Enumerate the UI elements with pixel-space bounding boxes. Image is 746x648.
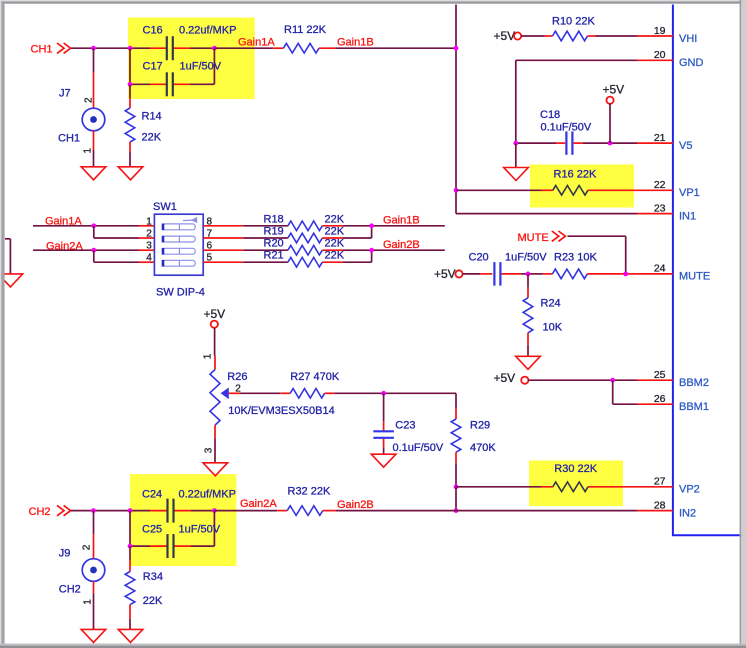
svg-text:10K: 10K [543, 322, 563, 334]
pin numbers SW1 right 8-5 [207, 216, 213, 263]
wire C24 to C25 left leg [129, 511, 131, 546]
node junction Gain1A [91, 223, 96, 228]
wire +5V to C20 [463, 273, 493, 275]
svg-text:28: 28 [654, 499, 666, 511]
ground below R26 [203, 463, 228, 476]
pin 27 VP2 [637, 476, 700, 496]
svg-text:19: 19 [654, 25, 666, 37]
node junction BBM [610, 378, 615, 383]
svg-text:R27 470K: R27 470K [290, 371, 340, 383]
resistor R32 22K [287, 485, 331, 515]
svg-text:22K: 22K [325, 213, 345, 225]
wire C17 row [130, 48, 214, 84]
resistor R14 22K [125, 108, 162, 143]
wire R26 wiper to R27 [229, 392, 290, 394]
svg-text:25: 25 [654, 369, 666, 381]
svg-text:Gain1B: Gain1B [337, 37, 374, 49]
svg-text:Gain1B: Gain1B [383, 214, 420, 226]
wire C25 node to R34 [129, 546, 131, 571]
capacitor C25 1uF/50V [142, 523, 221, 558]
svg-text:VP1: VP1 [679, 187, 700, 199]
svg-text:2: 2 [146, 229, 152, 240]
svg-text:BBM1: BBM1 [679, 401, 709, 413]
wire R10 to pin 19 [588, 35, 638, 37]
svg-text:+5V: +5V [204, 307, 226, 321]
resistor R18 22K [264, 213, 345, 230]
wire C23 to ground [383, 439, 385, 455]
wire Gain1A to R11 [214, 47, 283, 49]
ground below C18 [504, 168, 529, 181]
wire +5V to V5 [609, 103, 611, 143]
svg-text:C23: C23 [395, 420, 415, 432]
svg-text:24: 24 [654, 263, 666, 275]
svg-text:Gain2B: Gain2B [383, 239, 420, 251]
wire C20 to R23 [502, 273, 553, 275]
node junction Gain2B [369, 248, 374, 253]
svg-text:3: 3 [204, 447, 215, 453]
capacitor C20 1uF/50V [469, 252, 548, 286]
svg-text:Gain1A: Gain1A [238, 37, 275, 49]
svg-text:1uF/50V: 1uF/50V [505, 252, 547, 264]
svg-text:SW DIP-4: SW DIP-4 [156, 287, 205, 299]
svg-text:1: 1 [203, 353, 214, 359]
svg-text:C25: C25 [142, 523, 162, 535]
wire R24 top [527, 274, 529, 298]
svg-text:VHI: VHI [679, 33, 697, 45]
svg-text:R29: R29 [470, 420, 490, 432]
power +5V at V5 [603, 82, 625, 103]
connector J9 jack [59, 548, 105, 596]
node junction C25 left [128, 544, 133, 549]
node junction C24 right [212, 508, 217, 513]
wire GND to ground symbol [515, 143, 517, 168]
svg-text:22K: 22K [325, 238, 345, 250]
pin 24 MUTE [637, 263, 710, 283]
ground below J7 [81, 167, 106, 180]
svg-text:0.1uF/50V: 0.1uF/50V [393, 442, 444, 454]
svg-text:R20: R20 [264, 238, 284, 250]
wire GND net [516, 60, 637, 143]
node junction IN2 [454, 508, 459, 513]
wire VP1 row to R16 [456, 189, 553, 191]
wire CH2 net horizontal [71, 510, 214, 512]
node junction CH2/J9 [91, 508, 96, 513]
wire +5V to R10 [521, 35, 553, 37]
wire R18 to Gain1B net [322, 225, 445, 227]
wire R26 to ground [214, 425, 216, 463]
wire CH1 net horizontal [71, 47, 214, 49]
node junction C23 [381, 391, 386, 396]
switch SW1 SW DIP-4 [153, 201, 205, 298]
svg-text:R24: R24 [541, 297, 561, 309]
power +5V at C20 [434, 267, 463, 281]
wire SW1 to R18 [203, 225, 288, 227]
svg-text:CH2: CH2 [29, 506, 51, 518]
svg-text:Gain2B: Gain2B [337, 499, 374, 511]
wire VP2 node down to IN2 [455, 487, 457, 511]
svg-text:470K: 470K [470, 442, 496, 454]
svg-text:22K: 22K [325, 250, 345, 262]
svg-text:22: 22 [654, 179, 666, 191]
wire R27 to C23 node [325, 392, 456, 394]
wire R32 to IN2 row [323, 510, 637, 512]
svg-text:R30 22K: R30 22K [554, 463, 597, 475]
capacitor C24 0.22uf/MKP [142, 488, 236, 522]
node junction Gain2A [91, 248, 96, 253]
svg-text:C18: C18 [540, 109, 560, 121]
resistor R21 22K [264, 250, 345, 267]
svg-text:R14: R14 [142, 111, 162, 123]
wire R19 up to Gain1B [322, 226, 371, 238]
svg-text:26: 26 [654, 393, 666, 405]
power +5V at R26 [204, 307, 226, 328]
svg-text:3: 3 [146, 241, 152, 252]
wire Gain1A to SW1 pin 1 [33, 225, 154, 227]
svg-text:J9: J9 [59, 548, 71, 560]
highlight box around C24/C25 [130, 474, 236, 566]
svg-text:IN1: IN1 [679, 210, 696, 222]
svg-text:C17: C17 [143, 61, 163, 73]
node junction Gain1B [369, 223, 374, 228]
capacitor C17 1uF/50V [143, 61, 222, 97]
pin 23 IN1 [637, 202, 696, 222]
ground below J9 [81, 629, 106, 642]
off-page connector chevron CH2 [57, 505, 64, 515]
svg-text:MUTE: MUTE [679, 271, 710, 283]
wire R14 to ground [129, 142, 131, 167]
wire R16 to pin 22 [588, 189, 637, 191]
svg-text:1uF/50V: 1uF/50V [179, 523, 221, 535]
wire R34 to ground [129, 605, 131, 630]
wire clipped net at left edge [5, 239, 10, 274]
highlight box around R30 [529, 461, 623, 507]
svg-text:R16 22K: R16 22K [554, 169, 597, 181]
svg-text:20: 20 [654, 49, 666, 61]
svg-text:21: 21 [654, 132, 666, 144]
svg-text:R23 10K: R23 10K [554, 252, 597, 264]
svg-text:VP2: VP2 [679, 484, 700, 496]
svg-text:1: 1 [83, 148, 94, 154]
resistor R11 22K [283, 24, 326, 53]
svg-text:+5V: +5V [494, 29, 516, 43]
wire C23 top [383, 393, 385, 430]
resistor R16 22K [553, 169, 597, 196]
connector bus line [673, 5, 742, 536]
svg-text:+5V: +5V [603, 82, 625, 96]
pin 26 BBM1 [637, 393, 709, 413]
wire R11 to Gain1B node [319, 47, 456, 49]
resistor R20 22K [264, 238, 345, 255]
svg-text:Gain2A: Gain2A [240, 498, 277, 510]
node junction C16 right [212, 46, 217, 51]
wire R21 up to Gain2B [322, 250, 371, 262]
wire J9 drop [93, 511, 95, 559]
resistor R30 22K [553, 463, 598, 492]
svg-text:MUTE: MUTE [518, 232, 549, 244]
ground below R24 [516, 356, 541, 369]
svg-text:23: 23 [654, 202, 666, 214]
resistor R10 22K [552, 15, 595, 41]
ground below R14 [118, 167, 143, 180]
node junction VP2/R29 [454, 484, 459, 489]
resistor R34 22K [125, 571, 163, 607]
node junction C17 left [128, 82, 133, 87]
svg-text:0.22uf/MKP: 0.22uf/MKP [179, 488, 236, 500]
ground at left edge [0, 274, 23, 287]
svg-text:C16: C16 [143, 25, 163, 37]
svg-text:0.1uF/50V: 0.1uF/50V [541, 122, 592, 134]
capacitor C23 0.1uF/50V [373, 420, 444, 454]
wire +5V to R26 pin1 [214, 328, 216, 370]
svg-text:GND: GND [679, 57, 704, 69]
svg-text:22K: 22K [142, 131, 162, 143]
svg-text:R19: R19 [264, 226, 284, 238]
wire J9 to ground [93, 581, 95, 629]
svg-text:R32 22K: R32 22K [288, 485, 331, 497]
pin 21 V5 [637, 132, 692, 152]
capacitor C16 0.22uf/MKP [143, 25, 237, 61]
svg-text:+5V: +5V [434, 267, 456, 281]
wire Gain2A to R32 [214, 510, 287, 512]
svg-text:22K: 22K [325, 226, 345, 238]
wire SW1 to R20 [203, 249, 288, 251]
svg-text:27: 27 [654, 476, 666, 488]
pin 19 VHI [637, 25, 697, 45]
svg-text:CH2: CH2 [59, 583, 81, 595]
wire C17 node to R14 [129, 84, 131, 108]
pin numbers SW1 left 1-4 [146, 216, 152, 263]
resistor R27 470K [290, 371, 340, 398]
wire C25 row [130, 511, 214, 546]
wire BBM junction to pin 26 [613, 380, 637, 404]
svg-text:R11 22K: R11 22K [284, 24, 327, 36]
wire C18 to pin 21 [574, 142, 637, 144]
node junction CH1/J7 [91, 46, 96, 51]
wire VP2 row to R30 [456, 486, 553, 488]
node junction GND/C18 [513, 141, 518, 146]
svg-text:1: 1 [82, 599, 93, 605]
svg-text:R21: R21 [264, 250, 284, 262]
wire R20 to Gain2B net [322, 249, 445, 251]
wire R23 to pin 24 [587, 273, 637, 275]
wire R30 to pin 27 [588, 486, 637, 488]
potentiometer R26 10K/EVM3ESX50B14 [210, 370, 335, 426]
wire SW1 to R19 [203, 237, 288, 239]
svg-text:R34: R34 [143, 571, 163, 583]
pin 28 IN2 [637, 499, 696, 519]
wire SW1 to R21 [203, 261, 288, 263]
svg-text:V5: V5 [679, 140, 692, 152]
svg-text:4: 4 [146, 253, 152, 264]
node junction CH1/C16 [128, 46, 133, 51]
svg-text:+5V: +5V [494, 371, 516, 385]
node junction C20/R24 [526, 272, 531, 277]
wire J7 drop [93, 48, 95, 108]
ground below C23 [371, 454, 396, 467]
wire V5 row left of C18 [516, 142, 565, 144]
svg-text:CH1: CH1 [31, 44, 53, 56]
svg-text:2: 2 [84, 97, 95, 103]
wire R24 to ground [527, 333, 529, 357]
svg-text:R10 22K: R10 22K [552, 15, 595, 27]
svg-text:J7: J7 [59, 88, 71, 100]
wire Gain2A to SW1 pin 4 [94, 250, 155, 262]
svg-text:22K: 22K [143, 595, 163, 607]
connector J7 jack [58, 88, 105, 145]
wire R29 top [455, 393, 457, 419]
node junction CH2/C24 [128, 508, 133, 513]
wire Gain2A to SW1 pin 3 [33, 249, 154, 251]
node junction VP1 branch [454, 188, 459, 193]
svg-text:C20: C20 [469, 252, 489, 264]
pin 22 VP1 [637, 179, 700, 199]
power +5V at R10 [494, 29, 522, 43]
svg-text:BBM2: BBM2 [679, 377, 709, 389]
highlight box around R16 [530, 165, 634, 208]
wire +5V to pin 25 [528, 379, 637, 381]
pin 25 BBM2 [637, 369, 709, 389]
svg-text:CH1: CH1 [58, 133, 80, 145]
svg-text:SW1: SW1 [153, 201, 177, 213]
pin 20 GND [637, 49, 704, 69]
wire Gain1A to SW1 pin 2 [94, 226, 155, 238]
node junction Gain1B/vertical [454, 46, 459, 51]
svg-text:R26: R26 [227, 371, 247, 383]
node junction V5/+5V [608, 141, 613, 146]
power +5V at BBM [494, 371, 529, 385]
off-page connector chevron MUTE [552, 231, 559, 241]
capacitor C18 0.1uF/50V [540, 109, 592, 155]
highlight box around C16/C17 [128, 18, 255, 99]
svg-text:10K/EVM3ESX50B14: 10K/EVM3ESX50B14 [228, 405, 334, 417]
wire J7 to ground [93, 131, 95, 167]
resistor R23 10K [552, 252, 597, 279]
svg-text:2: 2 [82, 544, 93, 550]
svg-text:1: 1 [146, 216, 152, 227]
ground below R34 [118, 629, 143, 642]
svg-text:IN2: IN2 [679, 507, 696, 519]
resistor R24 10K [523, 297, 563, 333]
resistor R29 470K [451, 419, 496, 454]
node junction MUTE/pin24 [623, 272, 628, 277]
svg-text:R18: R18 [264, 213, 284, 225]
resistor R19 22K [264, 226, 345, 243]
wire MUTE label to pin 24 [568, 236, 626, 274]
wire R29 to VP2 node [455, 452, 457, 487]
wire Gain1B vertical net [456, 5, 637, 214]
wire C16 to C17 left leg [129, 48, 131, 84]
svg-text:0.22uf/MKP: 0.22uf/MKP [179, 25, 236, 37]
svg-text:1uF/50V: 1uF/50V [180, 61, 222, 73]
svg-text:C24: C24 [142, 488, 162, 500]
off-page connector chevron CH1 [57, 43, 64, 53]
